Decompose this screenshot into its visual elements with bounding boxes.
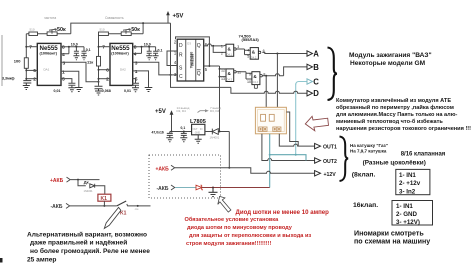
wire OUT1 line bbox=[279, 134, 314, 146]
ground C8 bbox=[132, 88, 139, 92]
ground C5 bbox=[95, 91, 102, 95]
wire osc2 top bbox=[108, 23, 143, 34]
junction rail/pot2 bbox=[142, 22, 144, 24]
svg-text:1: 1 bbox=[62, 69, 65, 75]
svg-text:+АКБ: +АКБ bbox=[50, 178, 64, 184]
capacitor C6 10,0 osc2 bbox=[144, 43, 152, 56]
diode D1 1N4001 bbox=[205, 129, 229, 140]
svg-text:13: 13 bbox=[221, 77, 225, 81]
connector arrow +12V bbox=[315, 171, 321, 176]
hollow arrow module pointer bbox=[305, 116, 328, 131]
svg-text:(1006вит): (1006вит) bbox=[111, 52, 129, 56]
wire D3 reset pin1 bbox=[171, 51, 178, 75]
junction node B bbox=[265, 75, 267, 77]
wire C column cyan bbox=[295, 84, 297, 155]
text foreign cars note bbox=[354, 230, 430, 246]
gate D4.2 bbox=[247, 48, 264, 60]
svg-text:+5V: +5V bbox=[155, 109, 166, 115]
svg-text:8: 8 bbox=[134, 44, 137, 50]
node -АКБ relay bbox=[51, 203, 70, 210]
svg-text:1: 1 bbox=[221, 44, 223, 48]
wire -АКБ relay bbox=[70, 205, 117, 207]
svg-text:5: 5 bbox=[247, 55, 249, 59]
mark bottom-left corner bbox=[0, 258, 3, 263]
svg-text:7: 7 bbox=[29, 45, 32, 51]
svg-text:6: 6 bbox=[33, 68, 36, 74]
node lower link from clock junction bbox=[171, 75, 231, 88]
svg-text:510: 510 bbox=[100, 28, 105, 32]
potentiometer RP1 50к bbox=[47, 27, 66, 36]
wire DA1 pin6 bbox=[26, 69, 37, 71]
connector arrow C bbox=[307, 79, 313, 84]
capacitor C7 0,1 osc2 bbox=[153, 47, 162, 56]
svg-text:спз: спз bbox=[135, 208, 139, 211]
diode D2 schottky bbox=[196, 185, 203, 190]
wire DA2 pin2 bbox=[99, 78, 111, 80]
wire DA1 pin7 bbox=[26, 46, 37, 48]
capacitor C9 47,0х16 bbox=[152, 130, 173, 138]
svg-text:Коммутатор извлечённый из моду: Коммутатор извлечённый из модуля АТЕ bbox=[336, 97, 451, 104]
wire drop to diode Дк bbox=[78, 180, 86, 186]
svg-text:+12V: +12V bbox=[324, 172, 337, 178]
svg-text:+5V: +5V bbox=[173, 14, 184, 20]
wire coil to minus line bbox=[103, 201, 105, 206]
svg-text:по схемам на машину: по схемам на машину bbox=[354, 237, 430, 245]
svg-text:На 7,9,7 катушка: На 7,9,7 катушка bbox=[350, 148, 387, 153]
wire DA2 pin1 to ground bbox=[133, 71, 149, 88]
svg-text:-АКБ: -АКБ bbox=[157, 186, 169, 192]
node ground feeder column bbox=[219, 66, 221, 132]
wire DA1 pin3 to osc2 trigger bbox=[61, 62, 99, 82]
svg-text:частота: частота bbox=[44, 16, 56, 20]
svg-text:2: 2 bbox=[106, 77, 109, 83]
svg-text:GND: GND bbox=[195, 132, 201, 135]
svg-text:D3, D4: D3, D4 bbox=[210, 109, 220, 113]
wire module right side to OUT1 bbox=[286, 112, 298, 146]
svg-text:OUT2: OUT2 bbox=[323, 159, 337, 165]
svg-text:0,01: 0,01 bbox=[124, 89, 131, 93]
junction Q output node bbox=[212, 45, 214, 47]
junction dots osc2 column bbox=[98, 46, 100, 48]
wire -АКБ to diode bbox=[175, 187, 196, 189]
IC NE555 DA1 bbox=[29, 43, 65, 85]
svg-text:1: 1 bbox=[135, 69, 138, 75]
wire osc2 column bbox=[98, 34, 100, 86]
svg-text:50к: 50к bbox=[131, 27, 140, 33]
svg-text:нарушения резисторов токового: нарушения резисторов токового ограничени… bbox=[336, 126, 471, 132]
IC U2 L7805 bbox=[190, 119, 206, 135]
capacitor C10 0,1 bbox=[181, 126, 187, 138]
svg-text:3,3мкф: 3,3мкф bbox=[2, 76, 15, 80]
svg-text:На катушку "Газ": На катушку "Газ" bbox=[350, 143, 388, 148]
junction +АКБ feed node bbox=[228, 167, 230, 169]
svg-text:Альтернативный вариант, возмож: Альтернативный вариант, возможно bbox=[27, 230, 147, 238]
text alternative variant block bbox=[27, 230, 150, 263]
junction dots osc1 column bbox=[25, 46, 27, 48]
svg-text:3- In2: 3- In2 bbox=[399, 188, 416, 195]
wire DA2 pins 8-4 tie bbox=[133, 47, 156, 54]
svg-text:555ТМ2: 555ТМ2 bbox=[190, 54, 194, 67]
wire DA1 pin2 bbox=[26, 78, 37, 80]
svg-text:16клап.: 16клап. bbox=[353, 202, 378, 209]
ground C3 bbox=[73, 56, 79, 60]
ground C7 bbox=[153, 56, 159, 60]
svg-text:даже правильней и надёжней: даже правильней и надёжней bbox=[30, 239, 127, 247]
svg-text:строя модуля зажигания!!!!!!!!: строя модуля зажигания!!!!!!!!! bbox=[186, 241, 272, 247]
svg-text:+АКБ: +АКБ bbox=[156, 166, 170, 172]
svg-text:6: 6 bbox=[106, 68, 109, 74]
junction relay +АКБ tap bbox=[77, 179, 79, 181]
connector arrow D bbox=[307, 91, 313, 96]
svg-text:-АКБ: -АКБ bbox=[51, 204, 63, 210]
svg-text:Скважность: Скважность bbox=[105, 16, 124, 20]
ground osc1 trigger cap bbox=[23, 86, 30, 90]
junction relay coil / -АКБ bbox=[103, 205, 105, 207]
resistor R1 510 bbox=[29, 28, 38, 36]
text red warning block bbox=[185, 209, 330, 247]
svg-text:2: 2 bbox=[221, 51, 223, 55]
wire osc1 top bbox=[26, 33, 71, 35]
wire C line cyan bbox=[296, 82, 307, 85]
resistor R4 11к vertical bbox=[87, 56, 101, 66]
connector arrow B bbox=[307, 64, 313, 69]
wire diode to module minus bbox=[202, 187, 270, 189]
svg-text:D3, D4: D3, D4 bbox=[177, 109, 187, 113]
svg-text:0,1: 0,1 bbox=[181, 126, 186, 130]
svg-text:D4.4: D4.4 bbox=[253, 80, 259, 84]
junction osc2 trigger node bbox=[98, 81, 100, 83]
svg-text:IN: IN bbox=[200, 128, 203, 131]
junction +5V node taps bbox=[171, 131, 173, 133]
wire diode to relay coil bbox=[95, 186, 105, 194]
svg-text:для алюминия.Массу Паять тольк: для алюминия.Массу Паять только на алю- bbox=[336, 112, 457, 118]
wire OUT2 line gray bbox=[262, 134, 315, 161]
svg-text:3: 3 bbox=[63, 60, 66, 66]
svg-text:Q: Q bbox=[197, 71, 201, 77]
gate D4.3 bbox=[221, 69, 241, 82]
capacitor C1 3,3мкф bbox=[2, 76, 31, 85]
ground U2 bbox=[195, 135, 202, 144]
ground DA1 pin1 bbox=[75, 88, 83, 92]
svg-text:11к: 11к bbox=[87, 59, 93, 64]
svg-text:Дк: Дк bbox=[84, 180, 89, 185]
text commutator block bbox=[336, 97, 471, 132]
svg-text:D4.2: D4.2 bbox=[251, 55, 257, 59]
brace A-D bbox=[328, 48, 337, 101]
node +5V top rail bbox=[71, 23, 171, 34]
wire D3 Qbar output bbox=[204, 65, 220, 67]
svg-text:0,068: 0,068 bbox=[102, 89, 111, 93]
wire OUT2 teal branch bbox=[270, 155, 306, 161]
junction diode/ground-feeder node bbox=[219, 131, 221, 133]
svg-text:10: 10 bbox=[247, 80, 251, 84]
svg-text:1N4001: 1N4001 bbox=[210, 135, 220, 139]
relay section: node +АКБ bbox=[50, 177, 70, 184]
wire Q to gate D4.1 pin2 bbox=[213, 46, 226, 53]
relay K1 coil bbox=[98, 194, 111, 202]
wire DA1 pin1 to ground bbox=[61, 71, 79, 87]
capacitor C8 0,01 (DA2 pin5) bbox=[124, 79, 139, 93]
ground C10 bbox=[180, 138, 187, 142]
IC D3 555ТМ2 flip-flop bbox=[174, 39, 208, 81]
svg-text:(555ЛА3): (555ЛА3) bbox=[242, 37, 260, 42]
capacitor C2 0,01 (DA1 pin5) bbox=[54, 79, 76, 93]
svg-text:1- IN1: 1- IN1 bbox=[399, 172, 416, 179]
svg-text:Модуль зажигания "ВАЗ": Модуль зажигания "ВАЗ" bbox=[349, 52, 432, 59]
potentiometer RP2 50к bbox=[121, 27, 140, 36]
module pad top-left bbox=[261, 114, 266, 121]
IC NE555 DA2 bbox=[102, 43, 137, 85]
gate D4.1 bbox=[221, 44, 239, 56]
svg-text:5: 5 bbox=[62, 77, 65, 83]
junction D3 Qbar/D-feedback bbox=[208, 65, 210, 67]
wire DA2 pin3 to D3 clock bbox=[133, 62, 178, 75]
svg-text:47,0х16: 47,0х16 bbox=[152, 130, 164, 134]
svg-text:D3: D3 bbox=[187, 42, 191, 46]
svg-text:0,01: 0,01 bbox=[54, 89, 61, 93]
wire DA1 pins 8-4 tie bbox=[61, 47, 84, 54]
wire A column to module bbox=[276, 54, 278, 115]
connector pinout box 16v bbox=[392, 201, 433, 227]
connector arrow OUT2 bbox=[315, 158, 321, 163]
svg-text:миниевый теплоотвод что-б избе: миниевый теплоотвод что-б избежать bbox=[336, 118, 443, 125]
wire D line bbox=[231, 87, 307, 93]
svg-text:C: C bbox=[313, 77, 319, 86]
node +АКБ input bbox=[156, 165, 175, 172]
junction D4.3 input taps bbox=[219, 68, 221, 70]
junction DA1 pin8/4 node bbox=[68, 46, 70, 48]
svg-text:10,0: 10,0 bbox=[144, 43, 151, 47]
connector arrow A bbox=[307, 51, 313, 56]
ground minus line bbox=[209, 188, 218, 197]
svg-text:3- +12V): 3- +12V) bbox=[396, 219, 420, 226]
module pads bottom-left bbox=[259, 127, 267, 131]
junction minus/ground tap bbox=[212, 187, 214, 189]
power +5V symbol top bbox=[166, 11, 183, 23]
svg-text:обрезанный по периметру ,пайка: обрезанный по периметру ,пайка флюсом bbox=[336, 104, 454, 111]
svg-text:(Разные цоколёвки): (Разные цоколёвки) bbox=[363, 160, 426, 167]
svg-text:9: 9 bbox=[249, 72, 251, 76]
wire D4.3 out to D4.4 in bbox=[236, 72, 252, 79]
wire D4.4 bottom stubs bbox=[254, 85, 257, 89]
svg-text:R: R bbox=[179, 53, 183, 59]
diode D3 Дк bbox=[84, 180, 95, 193]
resistor R3 510 osc2 bbox=[99, 28, 109, 36]
wire +12V line bbox=[175, 168, 315, 174]
svg-text:2- +12v: 2- +12v bbox=[399, 180, 421, 187]
capacitor C4 0,1 bbox=[82, 47, 91, 56]
svg-text:Некоторые модели GM: Некоторые модели GM bbox=[350, 60, 426, 67]
pointer pencil arrow to switch bbox=[104, 207, 121, 228]
svg-text:7: 7 bbox=[102, 45, 105, 51]
wire B column to module bbox=[265, 76, 267, 115]
svg-text:4: 4 bbox=[247, 49, 249, 53]
label 7 вывод D3,D4 with arrow bbox=[198, 106, 222, 113]
power +5V symbol bottom bbox=[155, 109, 173, 132]
svg-text:0,1: 0,1 bbox=[158, 49, 163, 53]
junction DA2 pin8/4 node bbox=[141, 46, 143, 48]
switch K1 contact bbox=[117, 201, 151, 217]
resistor R2 100 vertical bbox=[14, 58, 28, 69]
svg-text:4: 4 bbox=[62, 52, 65, 58]
svg-text:но более громоздкий. Реле не м: но более громоздкий. Реле не менее bbox=[30, 247, 150, 255]
svg-text:Диод шотки не менее 10 ампер: Диод шотки не менее 10 ампер bbox=[236, 209, 330, 216]
wire D4.1 out to D4.2 in bbox=[236, 49, 250, 55]
svg-text:диода шотки по минусовому пров: диода шотки по минусовому проводу bbox=[187, 225, 293, 231]
svg-text:OUT: OUT bbox=[193, 128, 199, 131]
svg-text:(8клап.: (8клап. bbox=[352, 171, 376, 178]
text module title bbox=[349, 52, 432, 67]
wire osc1 left column bbox=[25, 34, 27, 80]
wire DA2 pin6 bbox=[99, 69, 111, 71]
wire +АКБ relay bbox=[71, 179, 100, 181]
svg-text:510: 510 bbox=[30, 28, 35, 32]
svg-text:2: 2 bbox=[33, 77, 36, 83]
svg-text:8/16 клапанная: 8/16 клапанная bbox=[401, 151, 446, 157]
ground C6 bbox=[146, 56, 152, 60]
text coil note bbox=[350, 143, 388, 153]
svg-text:OUT1: OUT1 bbox=[323, 145, 337, 151]
wire D4.3 inputs from Qbar column bbox=[220, 69, 227, 77]
connector pinout box 8v bbox=[396, 169, 430, 195]
svg-text:D4.1: D4.1 bbox=[227, 52, 233, 56]
svg-text:0,1: 0,1 bbox=[86, 48, 91, 52]
svg-text:25 ампер: 25 ампер bbox=[27, 256, 56, 263]
module ignition unit box bbox=[255, 107, 286, 134]
svg-text:8: 8 bbox=[62, 45, 65, 51]
svg-text:(1006вит): (1006вит) bbox=[40, 52, 58, 56]
wire B source line bbox=[262, 74, 283, 76]
wire A line bbox=[262, 52, 307, 53]
ground C2 bbox=[68, 88, 75, 92]
svg-text:2- GND: 2- GND bbox=[396, 211, 418, 218]
svg-text:10,0: 10,0 bbox=[71, 43, 78, 47]
svg-text:Q: Q bbox=[197, 43, 201, 49]
capacitor C5 0,068 bbox=[95, 86, 111, 93]
wire DA2 pin7 bbox=[99, 46, 111, 48]
svg-text:4: 4 bbox=[134, 52, 137, 58]
ground C9 bbox=[166, 138, 173, 142]
svg-text:1- IN1: 1- IN1 bbox=[396, 203, 413, 210]
junction teal OUT2 taps bbox=[295, 154, 297, 156]
ground DA2 pin1 bbox=[145, 88, 153, 92]
capacitor C3 10,0 bbox=[71, 43, 79, 56]
svg-text:для защиты от переполюсовки и: для защиты от переполюсовки и выхода из bbox=[189, 233, 311, 239]
svg-text:K1: K1 bbox=[120, 211, 127, 217]
svg-text:C: C bbox=[179, 74, 183, 80]
svg-text:1N4001: 1N4001 bbox=[84, 189, 94, 193]
svg-text:D: D bbox=[179, 43, 183, 49]
wire D3 D-feedback loop bbox=[176, 37, 210, 66]
node -АКБ input bbox=[157, 185, 175, 192]
svg-text:3: 3 bbox=[135, 60, 138, 66]
module pad top-right bbox=[269, 114, 274, 121]
wire +5V rail drop to D3 area bbox=[170, 23, 172, 51]
connector arrow OUT1 bbox=[315, 143, 321, 148]
wire B line bbox=[284, 67, 307, 76]
pointer arrow to schottky diode bbox=[218, 196, 231, 212]
brace OUT group bbox=[340, 137, 349, 182]
svg-text:D: D bbox=[313, 89, 319, 98]
wire module minus cyan column bbox=[269, 134, 271, 188]
ground C4 bbox=[81, 56, 87, 60]
svg-text:A: A bbox=[313, 49, 319, 58]
wire battery feed column bbox=[228, 132, 230, 168]
node 5V output line bbox=[170, 131, 192, 133]
svg-text:K1: K1 bbox=[101, 196, 108, 202]
svg-text:3: 3 bbox=[237, 45, 239, 49]
dashed box battery input bbox=[149, 155, 221, 198]
svg-text:D4.3: D4.3 bbox=[227, 77, 233, 81]
junction D3 clock node bbox=[170, 74, 172, 76]
module pads bottom-right bbox=[273, 127, 281, 131]
svg-text:DA2: DA2 bbox=[120, 68, 126, 72]
svg-text:100: 100 bbox=[14, 58, 21, 63]
svg-text:Обязательное условие установка: Обязательное условие установка bbox=[185, 216, 280, 223]
wire left frame edge bbox=[1, 35, 3, 86]
svg-text:B: B bbox=[313, 63, 319, 72]
wire D3 Q output bbox=[204, 44, 226, 46]
svg-text:DA1: DA1 bbox=[44, 68, 50, 72]
junction node A bbox=[276, 53, 278, 55]
svg-text:50к: 50к bbox=[57, 27, 66, 33]
wire D3 set pin4 loop bbox=[167, 51, 177, 66]
gate D4.4 bbox=[247, 72, 265, 85]
